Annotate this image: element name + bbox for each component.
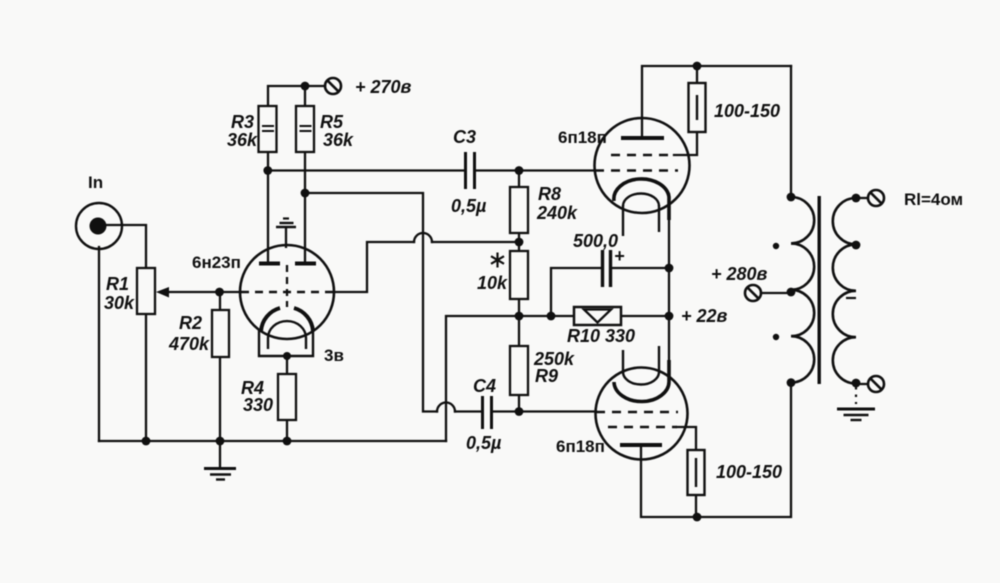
heater dome and legs	[623, 194, 659, 207]
junction upper screen resistor at anode wire	[693, 62, 702, 71]
pentode upper 6p18p	[595, 118, 690, 236]
svg-text:100-150: 100-150	[714, 101, 780, 121]
junction secondary bottom terminal	[852, 379, 861, 388]
wire transformer primary top riser	[790, 66, 792, 197]
svg-text:470k: 470k	[168, 334, 210, 354]
wire upper screen resistor bottom to screen grid	[674, 132, 697, 155]
wire R8 top lead	[518, 171, 520, 188]
svg-text:30k: 30k	[104, 293, 135, 313]
wire C3 to upper 6p18p grid	[476, 169, 595, 171]
wire R4 top lead from cathode frame	[286, 356, 288, 374]
transformer primary winding	[791, 197, 814, 383]
screen grid dashed	[608, 426, 677, 429]
capacitor C3 0,5u	[466, 152, 475, 189]
wire lower 6p18p anode to transformer	[641, 383, 791, 517]
svg-text:R3: R3	[231, 112, 254, 132]
anode 2 bar	[295, 262, 316, 266]
transformer core	[818, 196, 821, 384]
wire R2 top lead	[219, 292, 221, 310]
wire C4 to lower 6p18p grid	[494, 410, 596, 412]
junction +270v rail at R5	[301, 82, 310, 91]
cathode frame	[259, 329, 313, 356]
anode 1 bar	[259, 262, 280, 266]
svg-text:0,5µ: 0,5µ	[466, 433, 502, 453]
wire 10k bottom to R9 top	[518, 299, 520, 346]
wire ground riser to cathode network	[446, 316, 519, 441]
wire secondary top to speaker terminal	[856, 197, 867, 199]
control grid dashed	[595, 169, 678, 172]
cathode dome	[614, 179, 669, 220]
junction 10k / R9 / ground riser node	[515, 312, 524, 321]
resistor R3 36k	[227, 106, 277, 152]
heater dome	[268, 321, 306, 338]
svg-text:10k: 10k	[477, 273, 508, 293]
anode bar	[621, 136, 664, 140]
svg-text:+ 22в: + 22в	[681, 306, 728, 326]
svg-text:6п18п: 6п18п	[556, 437, 605, 456]
capacitor C4 0,5u	[483, 396, 492, 429]
junction grid1 / R2 node	[215, 288, 224, 297]
ground symbol at input stage	[204, 441, 236, 480]
control grid dashed	[596, 411, 678, 414]
partition dashed	[286, 265, 288, 307]
wire triode2 grid from tube to divider	[334, 242, 414, 292]
svg-text:In: In	[88, 173, 103, 192]
wire R3 bottom to triode1 anode	[267, 152, 269, 262]
wire R1 wiper to grid of 6n23p	[168, 291, 240, 293]
cathode arcs	[261, 308, 280, 331]
svg-text:C3: C3	[453, 127, 476, 147]
svg-text:+: +	[614, 246, 625, 266]
resistor R5 36k	[296, 106, 354, 152]
wire anode1 node to C3	[268, 169, 464, 171]
wire secondary bottom to speaker terminal	[856, 383, 867, 385]
pentode lower 6p18p	[596, 346, 688, 460]
svg-text:R1: R1	[106, 274, 129, 294]
svg-text:R9: R9	[535, 366, 558, 386]
wire lower screen resistor top lead from screen grid	[677, 427, 696, 450]
junction anode1 / R3 / C3 node	[263, 166, 272, 175]
wire hop over anode2 line	[414, 233, 432, 242]
wire R5 top lead	[304, 86, 306, 106]
primary tap dot upper	[773, 243, 779, 249]
junction primary center tap +280v	[787, 288, 796, 297]
wire anode2 node down to C4	[305, 193, 437, 412]
resistor R8 240k	[510, 184, 578, 233]
screen grid dashed	[611, 154, 674, 157]
capacitor 500,0 electrolytic	[603, 250, 611, 287]
cathode cup	[614, 360, 669, 402]
svg-text:36k: 36k	[227, 130, 258, 150]
wire +270v supply rail	[268, 86, 325, 106]
svg-text:R5: R5	[320, 112, 344, 132]
junction 500uF right at cathode bus	[665, 264, 674, 273]
wire R8 bottom to 10k top	[518, 233, 520, 251]
resistor R2 470k	[168, 310, 229, 357]
wire R4 bottom lead	[286, 420, 288, 441]
anode bar	[620, 443, 662, 447]
wire cathode bus of output tubes	[668, 194, 670, 380]
wire R1 bottom to ground bus	[145, 314, 147, 441]
svg-text:R10 330: R10 330	[567, 326, 635, 346]
transformer secondary winding	[833, 198, 856, 384]
wire R10 right lead to cathode bus	[621, 315, 669, 317]
grid dashed	[241, 291, 333, 294]
svg-text:Rl=4ом: Rl=4ом	[904, 190, 963, 209]
resistor R4 330	[241, 374, 296, 420]
potentiometer R1 30k	[104, 268, 169, 314]
wire +280v to primary center tap	[761, 292, 791, 294]
wire hop over ground riser at C4 line	[437, 403, 455, 412]
wire input jack shell down to ground bus	[98, 247, 100, 441]
wire lower screen resistor bottom lead	[695, 495, 697, 517]
svg-text:R2: R2	[179, 313, 202, 333]
rheostat R10 330	[567, 307, 635, 346]
svg-text:R8: R8	[538, 184, 561, 204]
junction R4 bottom at ground bus	[283, 437, 292, 446]
resistor lower 100-150	[688, 450, 783, 495]
junction R1 bottom at ground bus	[142, 437, 151, 446]
svg-text:+ 270в: + 270в	[355, 77, 412, 97]
svg-text:100-150: 100-150	[716, 462, 782, 482]
speaker terminal bottom	[868, 376, 884, 392]
junction R8 / 10k / triode2 grid node	[515, 238, 524, 247]
wire cathode network node to R10 left	[519, 315, 574, 317]
junction lower screen resistor at anode wire	[693, 513, 702, 522]
svg-text:6н23п: 6н23п	[192, 253, 241, 272]
primary tap dot lower	[773, 334, 779, 340]
terminal +270v	[325, 78, 341, 94]
wire 500uF left riser	[551, 268, 601, 316]
junction primary bottom terminal	[787, 378, 796, 387]
wire upper 6p18p anode to transformer	[642, 66, 791, 138]
wire R9 bottom lead	[518, 395, 520, 412]
shield symbol above tube	[283, 217, 289, 219]
terminal +280v	[745, 285, 761, 301]
junction C4 / R9 / lower grid node	[515, 407, 524, 416]
junction secondary top terminal	[852, 194, 861, 203]
wire hop to C4 left plate	[455, 410, 481, 412]
junction anode2 / R5 / C4 feed node	[301, 189, 310, 198]
wire R5 bottom to triode2 anode	[304, 152, 306, 262]
wire input jack pin to R1 top	[106, 225, 146, 268]
wire 500uF right lead to cathode bus	[612, 267, 669, 269]
resistor upper 100-150	[689, 83, 781, 132]
svg-text:330: 330	[243, 395, 273, 415]
svg-text:3в: 3в	[324, 346, 344, 365]
speaker terminal top	[868, 190, 884, 206]
svg-text:240k: 240k	[536, 203, 578, 223]
resistor 10k selected	[477, 251, 528, 299]
wire R2 bottom lead	[219, 357, 221, 441]
svg-text:+ 280в: + 280в	[711, 264, 768, 284]
junction R10 right / +22v cathode node	[665, 312, 674, 321]
svg-text:36k: 36k	[323, 130, 354, 150]
wire upper screen resistor top lead	[696, 66, 698, 83]
svg-text:C4: C4	[473, 376, 496, 396]
heater cup and legs	[623, 372, 659, 385]
junction R2 bottom / ground	[216, 437, 225, 446]
svg-text:500,0: 500,0	[573, 231, 618, 251]
ground symbol at secondary	[837, 387, 875, 420]
svg-text:0,5µ: 0,5µ	[451, 196, 487, 216]
junction C3 / R8 / upper grid node	[515, 166, 524, 175]
junction 500uF left / R10 left node	[547, 312, 556, 321]
input jack In	[76, 203, 122, 249]
junction secondary tap	[852, 241, 861, 250]
junction primary top terminal	[787, 193, 796, 202]
wire ground bus	[99, 440, 446, 442]
resistor R9 250k	[510, 346, 575, 395]
wire hop to R8/10k node	[432, 241, 519, 243]
svg-text:6п18п: 6п18п	[558, 128, 607, 147]
junction cathode frame / R4 node	[283, 352, 291, 360]
triode 6n23p U1	[240, 219, 334, 357]
